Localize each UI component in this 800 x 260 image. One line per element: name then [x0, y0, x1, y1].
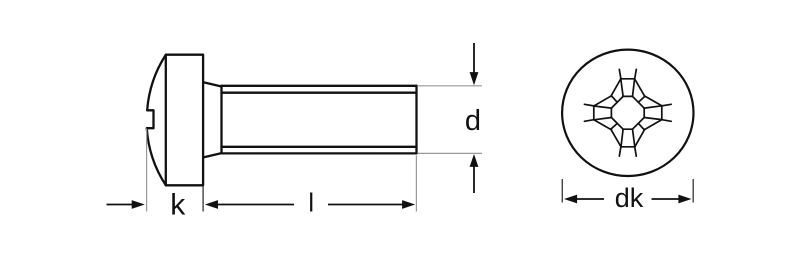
head cylindrical face (side view rectangle) [166, 55, 203, 186]
recess corner bottom-right [633, 118, 645, 130]
svg-text:k: k [170, 189, 186, 222]
dim dk arrow right (points right) [652, 198, 680, 200]
svg-text:dk: dk [615, 183, 644, 213]
under-head taper bottom line [204, 153, 222, 157]
dim l arrow left (points left) [205, 200, 218, 209]
svg-text:l: l [308, 190, 314, 218]
head dome with recess notch (side view) [147, 55, 166, 186]
dim dk arrow left (points left) [564, 195, 577, 204]
cross recess pattern (top view) [584, 69, 671, 156]
extension line k right / head edge extended [202, 186, 204, 211]
shaft top inner line (thread minor dia) [222, 92, 417, 94]
recess arm down [611, 129, 645, 156]
head top view circle [562, 50, 693, 176]
recess arm left [584, 96, 611, 130]
extension line k left (gray) [146, 129, 148, 212]
shaft bottom outer line (thread major dia) [222, 152, 417, 154]
shaft top outer line (thread major dia) [222, 85, 417, 87]
shaft end vertical line [415, 86, 417, 154]
thread start vertical line [220, 86, 222, 154]
recess arm up [611, 69, 645, 96]
recess corner top-right [633, 96, 645, 108]
dim d arrow bottom (points up) [470, 154, 479, 167]
under-head taper top line [204, 82, 222, 86]
extension line d top (gray) [418, 85, 482, 87]
recess corner top-left [611, 96, 623, 108]
dim l arrow right (points right) [328, 204, 403, 206]
recess corner bottom-left [611, 118, 623, 130]
extension line l right (gray) [415, 156, 417, 212]
dim k arrow left (points right) [107, 204, 133, 206]
dim d arrow top (points down) [473, 43, 475, 73]
extension line d bottom (gray) [418, 152, 482, 154]
extension line dk right [692, 179, 694, 203]
extension line dk left [561, 179, 563, 203]
recess arm right [644, 96, 671, 130]
svg-text:d: d [465, 105, 481, 137]
shaft bottom inner line (thread minor dia) [222, 146, 417, 148]
